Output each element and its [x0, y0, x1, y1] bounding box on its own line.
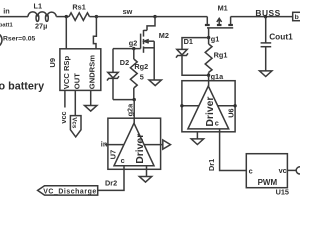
ground below U6 [191, 139, 203, 145]
voltage source circle at right edge (cut off) [296, 167, 303, 174]
ground below M2 source [149, 80, 161, 86]
U7 c pin stub [123, 166, 125, 170]
ground below U7 [139, 177, 151, 183]
svg-text:b: b [295, 14, 299, 21]
U9 pin label VCC RSp [62, 56, 71, 90]
svg-text:L1: L1 [34, 1, 43, 10]
svg-text:U7: U7 [108, 150, 117, 160]
value 5 [140, 72, 144, 81]
net flag Vcs (boxed, pointing down) [70, 116, 81, 137]
svg-text:U15: U15 [276, 188, 289, 197]
node in label [3, 7, 10, 16]
svg-text:sw: sw [123, 7, 133, 16]
node g1 [207, 36, 210, 39]
svg-text:D2: D2 [120, 58, 129, 67]
label U7 [108, 150, 117, 160]
value label Rser=0.05 [3, 36, 36, 43]
U6 right pin wire with junction dot [218, 104, 237, 107]
label D2 [120, 58, 129, 67]
wire: g2a down into U7 [133, 100, 135, 124]
net label Dr2 [105, 179, 117, 188]
wire: D1 down to g1a rail [182, 56, 209, 76]
wire: g1a down into U6 [208, 75, 210, 86]
wire: U9 VCC pin down [64, 90, 66, 107]
svg-text:batt1: batt1 [0, 22, 13, 28]
wire: BUSS down to Cout1 [265, 17, 267, 43]
wire: M1 gate down to g1 node [208, 28, 210, 38]
wire: L1 to Rs1 [56, 16, 69, 18]
svg-text:PWM: PWM [258, 178, 278, 187]
svg-text:g1a: g1a [211, 72, 225, 81]
transistor M1 (lateral MOSFET) [205, 17, 233, 28]
capacitor Cout1 [261, 43, 272, 47]
ground below U9 [85, 106, 97, 112]
label M1 [218, 4, 228, 13]
U6 ground pin stub [196, 132, 198, 139]
wire Dr2: U7 c pin down and left [98, 169, 124, 190]
label PWM [258, 178, 278, 187]
label Rs1 [72, 3, 85, 12]
svg-text:VC_Discharge: VC_Discharge [43, 189, 96, 196]
label U6 [227, 108, 236, 117]
label U15 [276, 188, 289, 197]
inductor L1 [28, 12, 56, 22]
label L1 [34, 1, 43, 10]
svg-text:g2a: g2a [125, 103, 134, 117]
wire: PWM vc to right edge [287, 169, 296, 171]
svg-text:Driver: Driver [135, 134, 146, 164]
svg-text:c: c [249, 166, 253, 175]
svg-text:Dr2: Dr2 [105, 179, 117, 188]
wire: sw node to M1 drain [155, 16, 207, 18]
label Cout1 [269, 31, 293, 41]
wire: U9 GND pin down [90, 90, 92, 105]
U6 pin label c [215, 118, 219, 127]
IC U6 driver box [182, 81, 235, 132]
svg-text:GNDRSm: GNDRSm [88, 55, 97, 89]
svg-text:o battery: o battery [0, 81, 44, 93]
U15 pin label vc [279, 166, 287, 175]
U7 output arrow [163, 140, 171, 149]
label Vbatt1 [0, 22, 13, 28]
label Rg2 [134, 62, 148, 71]
U7 pin label c [121, 156, 125, 165]
resistor Rg2 [130, 49, 137, 100]
net flag VC_Discharge [38, 186, 98, 196]
svg-text:VCC RSp: VCC RSp [62, 56, 71, 90]
U7 pin label in [101, 139, 108, 148]
label M2 [159, 31, 169, 40]
IC U9 current sense box [60, 49, 101, 91]
svg-text:Rg1: Rg1 [214, 50, 228, 59]
svg-text:D1: D1 [184, 37, 193, 46]
svg-text:vc: vc [279, 166, 287, 175]
wire: Cout1 to ground [265, 47, 267, 71]
U7 ground pin stub [146, 166, 148, 177]
svg-text:vcc: vcc [59, 111, 68, 123]
node g2a [133, 98, 136, 101]
svg-text:Dr1: Dr1 [207, 159, 216, 171]
zener diode D2 [107, 72, 119, 80]
label Driver (U6) [205, 97, 216, 127]
label Rg1 [214, 50, 228, 59]
svg-text:U9: U9 [48, 58, 57, 68]
U6 driver triangle [188, 86, 229, 129]
U9 pin label OUT [72, 73, 81, 89]
net label BUSS [255, 8, 280, 18]
value 27µ [35, 21, 47, 30]
U7 in pin wire [105, 144, 124, 146]
label g1a [211, 72, 225, 81]
U9 pin label GNDRSm [88, 55, 97, 89]
wire: Rs1 left node down to U9 RSp pin [65, 17, 67, 49]
net label sw [123, 7, 133, 16]
ground below Cout1 [260, 71, 272, 77]
svg-text:OUT: OUT [72, 73, 81, 89]
U7 output wire right [144, 144, 163, 146]
label Driver (U7) [135, 134, 146, 164]
wire: M1 source to BUSS [231, 16, 293, 18]
svg-text:g2: g2 [129, 39, 138, 48]
junction node sw [153, 15, 156, 18]
wire: g2 horizontal to M2 gate [113, 48, 141, 50]
svg-text:Rs1: Rs1 [72, 3, 85, 12]
wire Dr1: U6 c pin down to PWM [220, 129, 247, 171]
wire: input to L1 [0, 16, 28, 18]
resistor Rg1 [205, 38, 212, 76]
label g1 [211, 34, 220, 43]
svg-text:c: c [215, 118, 219, 127]
svg-text:27µ: 27µ [35, 21, 47, 30]
svg-text:M1: M1 [218, 4, 228, 13]
IC U15 PWM box [246, 154, 287, 188]
label U9 [48, 58, 57, 68]
svg-text:g1: g1 [211, 34, 220, 43]
text to battery [0, 81, 44, 93]
svg-text:Vcs: Vcs [71, 117, 78, 129]
svg-text:5: 5 [140, 72, 144, 81]
zener diode D1 [176, 49, 188, 57]
junction node left of Rs1 [65, 15, 68, 18]
svg-text:U6: U6 [227, 108, 236, 117]
node g1a [207, 74, 210, 77]
wire: Rs1 to sw node [90, 16, 156, 18]
resistor Rs1 [69, 13, 90, 21]
svg-text:Cout1: Cout1 [269, 31, 293, 41]
IC U7 driver box [108, 118, 161, 169]
label D1 [184, 37, 193, 46]
svg-text:Rg2: Rg2 [134, 62, 148, 71]
label g2 [129, 39, 138, 48]
wire: D2 to g2a rail [112, 78, 114, 99]
net label vcc [59, 111, 68, 123]
wire: g2 down to D2 [112, 49, 114, 73]
svg-text:BUSS: BUSS [255, 8, 280, 18]
wire: bottom rail D2/Rg2 to node g2a [113, 99, 134, 101]
U7 driver triangle [114, 123, 154, 166]
svg-text:in: in [3, 7, 10, 16]
U6 in pin wire with junction dot [180, 104, 198, 107]
wire: g1 left to D1 [182, 38, 209, 50]
junction node BUSS [264, 15, 267, 18]
wire: U9 OUT pin down to flag [74, 90, 76, 115]
U15 pin label c [249, 166, 253, 175]
svg-text:c: c [121, 156, 125, 165]
svg-text:M2: M2 [159, 31, 169, 40]
label g2a [125, 103, 134, 117]
wire: sw node down to M2 drain [147, 17, 155, 31]
wire: Rs1 right node down to U9 RSm pin (with jog) [93, 17, 96, 49]
boxed net label at right edge [293, 12, 303, 21]
transistor M2 (NMOS) [141, 30, 155, 80]
voltage source Vbatt1 (circle cut off at left edge) [0, 33, 2, 48]
net label Dr1 [207, 159, 216, 171]
node g2 [132, 47, 135, 50]
junction node right of Rs1 [95, 15, 98, 18]
svg-text:Rser=0.05: Rser=0.05 [3, 36, 36, 43]
